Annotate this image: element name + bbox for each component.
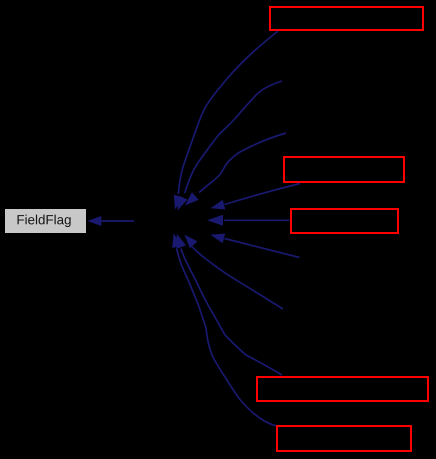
- edge E7: hidden class to middle node: [184, 235, 283, 310]
- node FieldFlag (base class box): [5, 209, 86, 233]
- node box middle (derived, truncated): [291, 209, 398, 233]
- edge E3: hidden class to middle node: [185, 133, 286, 206]
- edge E1: top box to middle node: [174, 31, 278, 210]
- node box bottom (derived, truncated): [277, 426, 411, 451]
- edge E4: mid-upper box to middle node: [211, 184, 301, 210]
- edge E2: hidden class to middle node: [178, 81, 283, 211]
- edge E9: bottom box to middle node: [172, 233, 276, 426]
- edge: middle node to FieldFlag: [87, 216, 134, 226]
- node box top (derived, truncated): [270, 7, 423, 30]
- node box mid-upper (derived, truncated): [284, 157, 404, 182]
- node box bottom-large (derived, truncated): [257, 377, 428, 401]
- edge E8: bottom-large box to middle node: [177, 234, 283, 375]
- edge E6: hidden class to middle node: [210, 234, 299, 258]
- edge E5: middle box to middle node: [207, 215, 290, 226]
